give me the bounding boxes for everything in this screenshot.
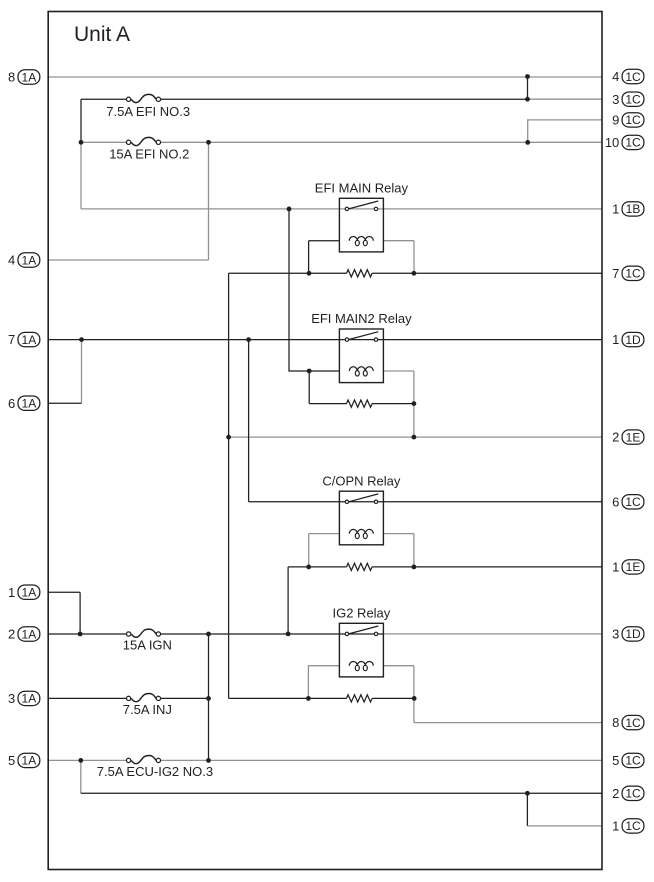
- svg-text:1A: 1A: [22, 70, 37, 84]
- svg-text:6: 6: [612, 494, 619, 509]
- svg-text:7.5A EFI NO.3: 7.5A EFI NO.3: [106, 104, 190, 119]
- svg-text:15A EFI NO.2: 15A EFI NO.2: [109, 147, 189, 162]
- svg-text:EFI MAIN2 Relay: EFI MAIN2 Relay: [311, 311, 412, 326]
- svg-text:1D: 1D: [625, 333, 641, 347]
- svg-text:7.5A ECU-IG2 NO.3: 7.5A ECU-IG2 NO.3: [97, 764, 213, 779]
- svg-text:1C: 1C: [625, 113, 641, 127]
- svg-text:3: 3: [612, 627, 619, 642]
- svg-text:4: 4: [612, 69, 619, 84]
- svg-text:4: 4: [8, 253, 15, 268]
- svg-text:8: 8: [612, 715, 619, 730]
- svg-text:6: 6: [8, 396, 15, 411]
- svg-text:1C: 1C: [625, 787, 641, 801]
- svg-text:2: 2: [8, 627, 15, 642]
- svg-text:1C: 1C: [625, 716, 641, 730]
- svg-text:9: 9: [612, 113, 619, 128]
- svg-text:3: 3: [8, 691, 15, 706]
- svg-text:1: 1: [8, 585, 15, 600]
- svg-text:1C: 1C: [625, 136, 641, 150]
- svg-text:15A IGN: 15A IGN: [123, 638, 172, 653]
- svg-text:7: 7: [8, 332, 15, 347]
- svg-text:1A: 1A: [22, 397, 37, 411]
- svg-text:1: 1: [612, 560, 619, 575]
- svg-text:8: 8: [8, 70, 15, 85]
- svg-text:1D: 1D: [625, 627, 641, 641]
- svg-text:IG2 Relay: IG2 Relay: [332, 606, 390, 621]
- svg-text:2: 2: [612, 430, 619, 445]
- svg-text:5: 5: [612, 753, 619, 768]
- svg-text:C/OPN Relay: C/OPN Relay: [322, 473, 401, 488]
- svg-text:1A: 1A: [22, 754, 37, 768]
- svg-text:3: 3: [612, 92, 619, 107]
- svg-text:1C: 1C: [625, 819, 641, 833]
- svg-text:1A: 1A: [22, 253, 37, 267]
- svg-text:EFI MAIN Relay: EFI MAIN Relay: [315, 181, 409, 196]
- svg-text:1C: 1C: [625, 754, 641, 768]
- svg-text:1C: 1C: [625, 267, 641, 281]
- svg-text:1: 1: [612, 819, 619, 834]
- svg-text:1C: 1C: [625, 70, 641, 84]
- svg-text:7: 7: [612, 266, 619, 281]
- svg-text:1A: 1A: [22, 692, 37, 706]
- svg-text:1A: 1A: [22, 586, 37, 600]
- svg-text:1B: 1B: [626, 202, 641, 216]
- svg-text:1E: 1E: [626, 560, 641, 574]
- svg-text:Unit A: Unit A: [74, 23, 130, 46]
- svg-text:1E: 1E: [626, 430, 641, 444]
- svg-text:1C: 1C: [625, 93, 641, 107]
- svg-text:1: 1: [612, 202, 619, 217]
- svg-text:1C: 1C: [625, 495, 641, 509]
- svg-text:1A: 1A: [22, 333, 37, 347]
- svg-text:10: 10: [605, 135, 619, 150]
- svg-text:1: 1: [612, 332, 619, 347]
- svg-text:5: 5: [8, 753, 15, 768]
- svg-text:1A: 1A: [22, 627, 37, 641]
- svg-text:7.5A INJ: 7.5A INJ: [123, 702, 172, 717]
- svg-text:2: 2: [612, 786, 619, 801]
